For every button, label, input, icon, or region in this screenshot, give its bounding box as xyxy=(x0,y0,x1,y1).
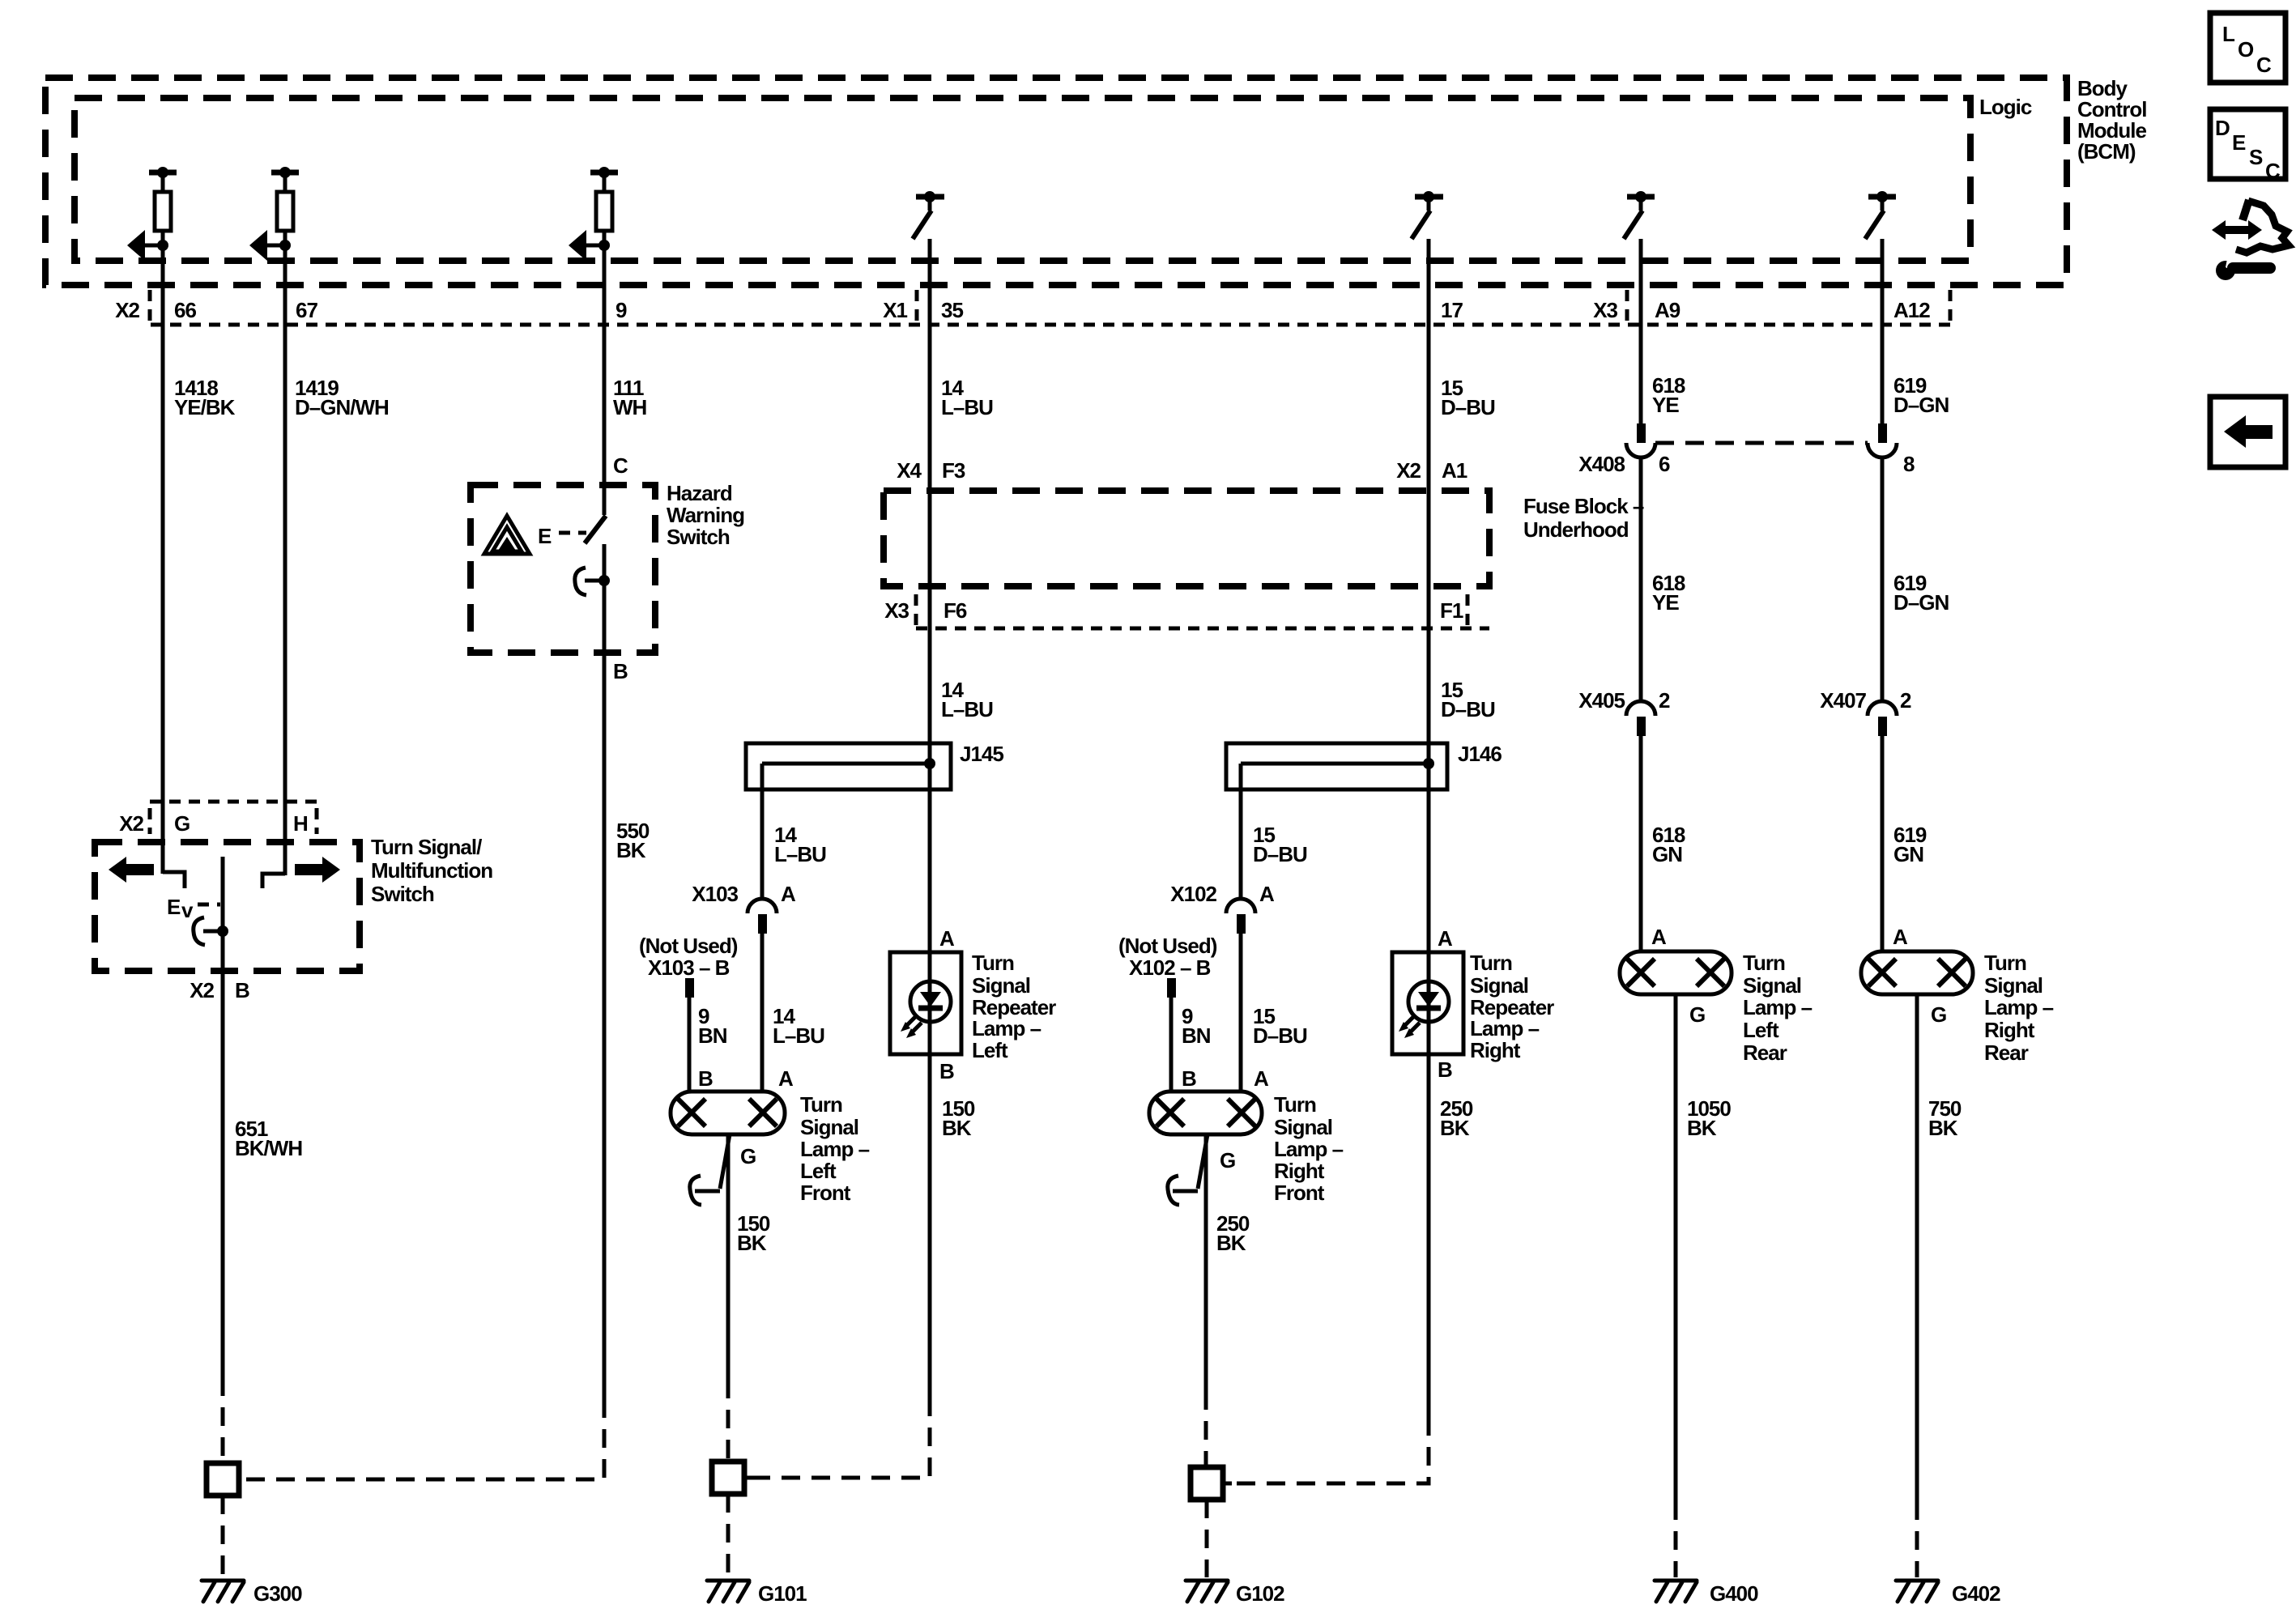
svg-text:E: E xyxy=(538,524,552,548)
svg-text:Right: Right xyxy=(1984,1018,2035,1042)
svg-text:B: B xyxy=(613,659,628,683)
svg-text:D–GN: D–GN xyxy=(1893,393,1949,417)
svg-text:WH: WH xyxy=(613,395,647,419)
wire 619 D-GN upper xyxy=(1881,239,1885,423)
ground G300 xyxy=(202,1581,244,1602)
arrow output 9 xyxy=(586,244,604,248)
svg-text:L–BU: L–BU xyxy=(774,842,826,866)
svg-text:Turn Signal/: Turn Signal/ xyxy=(371,835,482,859)
wire 1050 BK xyxy=(1674,994,1678,1501)
turn signal lamp right rear xyxy=(1861,951,1973,994)
svg-text:X103: X103 xyxy=(692,882,738,906)
node dot J145 xyxy=(924,758,935,769)
wire 1050 dashed to G400 xyxy=(1674,1501,1678,1577)
connector X407 pin 2 stub xyxy=(1878,717,1887,736)
svg-text:G: G xyxy=(740,1144,756,1168)
lamp LF case contact slant xyxy=(720,1134,730,1189)
svg-text:Turn: Turn xyxy=(1274,1092,1316,1117)
resistor BCM pin 67 top bar xyxy=(271,170,299,176)
connector X102 pin B stub xyxy=(1167,978,1176,998)
svg-text:G300: G300 xyxy=(253,1581,302,1606)
svg-text:A: A xyxy=(781,882,796,906)
svg-text:G101: G101 xyxy=(758,1581,807,1606)
svg-text:Right: Right xyxy=(1470,1038,1521,1062)
wire 150 BK ground lead xyxy=(726,1134,731,1380)
ground G101 xyxy=(707,1581,749,1602)
svg-text:BK: BK xyxy=(1216,1231,1246,1255)
svg-text:(Not Used): (Not Used) xyxy=(1118,934,1217,958)
svg-text:A: A xyxy=(1254,1066,1269,1091)
resistor BCM pin 9 top bar xyxy=(590,170,618,176)
svg-text:X405: X405 xyxy=(1578,688,1625,713)
svg-text:L–BU: L–BU xyxy=(941,697,993,721)
svg-text:2: 2 xyxy=(1900,688,1911,713)
ground splice box G300 xyxy=(207,1463,239,1496)
wire 618 YE upper xyxy=(1639,239,1643,423)
connector X103 pin A stub xyxy=(758,914,767,934)
svg-text:Hazard: Hazard xyxy=(667,481,732,505)
separator X3 fuse xyxy=(914,594,918,628)
resistor BCM pin 66 top bar xyxy=(149,170,177,176)
node dot J146 xyxy=(1423,758,1434,769)
svg-text:Lamp –: Lamp – xyxy=(1470,1016,1540,1040)
svg-text:B: B xyxy=(939,1059,954,1083)
legend back arrow box xyxy=(2210,397,2285,467)
svg-text:A: A xyxy=(1259,882,1275,906)
svg-text:Left: Left xyxy=(972,1038,1008,1062)
turn signal / multifunction switch dashed box xyxy=(95,842,360,971)
svg-text:BN: BN xyxy=(1182,1023,1211,1048)
wire 14 L-BU main xyxy=(928,239,932,1398)
Body Control Module (BCM) outer dashed box xyxy=(45,78,2067,285)
svg-text:D–BU: D–BU xyxy=(1441,395,1495,419)
svg-text:Left: Left xyxy=(1743,1018,1779,1042)
svg-text:Rear: Rear xyxy=(1743,1040,1787,1065)
wire ground path to G101 xyxy=(752,1398,930,1478)
svg-text:X3: X3 xyxy=(884,598,909,623)
connector X407 pin 2 arc xyxy=(1868,701,1897,716)
separator left xyxy=(148,808,152,834)
svg-text:Signal: Signal xyxy=(1470,973,1528,998)
node dot switch 35 xyxy=(924,191,935,202)
splice pack J146 box xyxy=(1226,743,1447,789)
wire 619 GN xyxy=(1881,736,1885,951)
wire 14 L-BU to lamp xyxy=(760,934,765,1091)
svg-text:Fuse Block –: Fuse Block – xyxy=(1523,494,1644,518)
svg-text:L–BU: L–BU xyxy=(773,1023,824,1048)
hazard warning switch dashed box xyxy=(471,485,655,653)
svg-text:Signal: Signal xyxy=(1743,973,1801,998)
svg-text:(BCM): (BCM) xyxy=(2077,139,2136,164)
svg-text:D–BU: D–BU xyxy=(1253,842,1307,866)
svg-text:Switch: Switch xyxy=(371,882,434,906)
svg-text:G: G xyxy=(1220,1148,1235,1172)
wire 111 WH xyxy=(603,231,607,515)
hazard switch movable contact hook xyxy=(575,568,586,595)
right turn arrow icon xyxy=(322,857,340,883)
ground splice box G102 xyxy=(1191,1467,1223,1500)
svg-text:D–BU: D–BU xyxy=(1253,1023,1307,1048)
svg-text:A1: A1 xyxy=(1442,458,1467,483)
svg-text:G102: G102 xyxy=(1236,1581,1284,1606)
svg-text:G: G xyxy=(174,811,190,836)
svg-text:Warning: Warning xyxy=(667,503,744,527)
svg-text:Rear: Rear xyxy=(1984,1040,2029,1065)
wire 250 BK ground lead xyxy=(1204,1134,1208,1391)
turn signal repeater lamp right box xyxy=(1392,952,1463,1054)
svg-text:F1: F1 xyxy=(1440,598,1463,623)
resistor BCM pin 67 xyxy=(283,172,288,192)
node dot resistor 67 xyxy=(279,167,291,178)
lamp RF case contact slant xyxy=(1198,1134,1208,1189)
svg-text:Turn: Turn xyxy=(1984,951,2026,975)
svg-text:Signal: Signal xyxy=(800,1115,858,1139)
arrow output 66 xyxy=(145,244,163,248)
node dot contact xyxy=(217,926,228,937)
svg-text:Lamp –: Lamp – xyxy=(1743,995,1813,1019)
svg-text:X2: X2 xyxy=(190,978,214,1002)
switch BCM pin 35 top bar xyxy=(916,194,944,200)
svg-text:9: 9 xyxy=(616,298,627,322)
switch BCM pin 35 blade xyxy=(928,197,932,211)
node dot switch A9 xyxy=(1635,191,1646,202)
wire 1418 YE/BK xyxy=(161,231,165,874)
ground G400 xyxy=(1655,1581,1697,1602)
wire 550 dashed path to G300 splice xyxy=(246,1399,604,1479)
svg-text:Lamp –: Lamp – xyxy=(972,1016,1042,1040)
svg-text:Multifunction: Multifunction xyxy=(371,858,492,883)
svg-text:F6: F6 xyxy=(944,598,967,623)
wire 618 GN xyxy=(1639,736,1643,951)
connector A12 right separator xyxy=(1949,290,1953,325)
wire J146 branch 15 D-BU xyxy=(1239,764,1243,899)
node dot resistor 9 xyxy=(598,167,610,178)
ground splice box G101 xyxy=(712,1462,744,1494)
connector X103 pin A arc xyxy=(748,899,777,913)
svg-text:E: E xyxy=(2232,130,2246,155)
legend DESC box xyxy=(2210,109,2285,179)
wire 1419 D-GN/WH xyxy=(283,231,288,875)
svg-text:Signal: Signal xyxy=(972,973,1030,998)
fuse block underhood dashed box xyxy=(884,491,1489,586)
legend vehicle service icon xyxy=(2212,200,2289,280)
LED symbol repeater left xyxy=(910,981,951,1022)
svg-text:D–GN: D–GN xyxy=(1893,590,1949,615)
svg-text:C: C xyxy=(613,453,628,478)
switch BCM pin 17 top bar xyxy=(1415,194,1443,200)
wire 750 dashed to G402 xyxy=(1915,1501,1919,1577)
wire 15 D-BU to lamp xyxy=(1239,934,1243,1091)
svg-text:F3: F3 xyxy=(942,458,965,483)
svg-text:Turn: Turn xyxy=(1743,951,1785,975)
connector X405 pin 2 stub xyxy=(1637,717,1646,736)
wire 750 BK xyxy=(1915,994,1919,1501)
turn signal repeater lamp left box xyxy=(890,952,961,1054)
svg-text:v: v xyxy=(181,898,194,922)
BCM connector pin row dotted line xyxy=(151,323,1950,327)
wire G102 down xyxy=(1205,1500,1209,1577)
multifunction switch X2 connector dotted line xyxy=(150,800,317,804)
svg-text:G400: G400 xyxy=(1710,1581,1758,1606)
svg-text:X102 – B: X102 – B xyxy=(1129,955,1211,980)
svg-text:BK/WH: BK/WH xyxy=(235,1136,302,1160)
connector X1 separator xyxy=(915,290,919,325)
resistor BCM pin 66 xyxy=(161,172,165,192)
connector X408 pin 8 stub xyxy=(1878,423,1887,443)
J145 bus bar xyxy=(762,762,930,766)
svg-text:GN: GN xyxy=(1652,842,1682,866)
svg-text:X2: X2 xyxy=(119,811,143,836)
svg-text:A: A xyxy=(778,1066,794,1091)
svg-text:X2: X2 xyxy=(115,298,139,322)
svg-text:L–BU: L–BU xyxy=(941,395,993,419)
connector X2 separator xyxy=(148,290,152,325)
svg-text:D–BU: D–BU xyxy=(1441,697,1495,721)
svg-text:B: B xyxy=(1182,1066,1196,1091)
LED symbol repeater right xyxy=(1408,981,1449,1022)
wire 15 D-BU main xyxy=(1427,239,1431,1417)
svg-text:E: E xyxy=(167,895,181,919)
hazard switch blade xyxy=(585,516,606,543)
svg-text:2: 2 xyxy=(1659,688,1670,713)
svg-text:YE: YE xyxy=(1652,393,1679,417)
hazard warning triangle icon xyxy=(484,516,530,554)
svg-text:BK: BK xyxy=(942,1116,972,1140)
connector X102 pin A stub xyxy=(1237,914,1246,934)
wire 9 BN xyxy=(688,998,692,1091)
svg-text:L: L xyxy=(2222,22,2235,46)
svg-text:Lamp –: Lamp – xyxy=(1984,995,2054,1019)
node dot hazard contact xyxy=(598,575,610,586)
wire 250 dashed to G102 splice xyxy=(1204,1391,1208,1467)
fuse block bottom row dotted line xyxy=(916,627,1489,631)
svg-text:G: G xyxy=(1689,1002,1705,1027)
svg-text:X3: X3 xyxy=(1593,298,1617,322)
svg-text:X407: X407 xyxy=(1820,688,1866,713)
svg-text:Signal: Signal xyxy=(1274,1115,1332,1139)
svg-text:BK: BK xyxy=(1440,1116,1470,1140)
svg-text:Turn: Turn xyxy=(1470,951,1512,975)
Logic inner dashed box xyxy=(75,98,1970,261)
node dot 67 xyxy=(279,240,291,251)
svg-text:A12: A12 xyxy=(1893,298,1930,322)
svg-text:X102: X102 xyxy=(1170,882,1216,906)
svg-text:Turn: Turn xyxy=(972,951,1014,975)
svg-text:Front: Front xyxy=(800,1181,851,1205)
switch BCM pin A9 blade xyxy=(1639,197,1643,211)
svg-text:C: C xyxy=(2265,159,2281,183)
lamp RF contact hook xyxy=(1168,1176,1179,1205)
svg-text:A: A xyxy=(1893,925,1908,949)
svg-text:BK: BK xyxy=(737,1231,767,1255)
svg-text:YE/BK: YE/BK xyxy=(174,395,236,419)
svg-text:A: A xyxy=(939,926,955,951)
separator right xyxy=(315,808,319,834)
connector X405 pin 2 arc xyxy=(1626,701,1655,716)
connector X408 pin 8 arc xyxy=(1868,443,1897,457)
svg-text:BK: BK xyxy=(616,838,646,862)
svg-text:J145: J145 xyxy=(960,742,1003,766)
svg-text:8: 8 xyxy=(1903,452,1915,476)
svg-text:66: 66 xyxy=(174,298,196,322)
separator F1 right xyxy=(1466,594,1470,628)
wire 9 BN right xyxy=(1169,998,1174,1091)
svg-text:X103 – B: X103 – B xyxy=(648,955,730,980)
svg-text:X4: X4 xyxy=(897,458,922,483)
lamp LF contact hook xyxy=(690,1176,701,1205)
connector X102 pin A arc xyxy=(1226,899,1255,913)
wire 651 dashed to G300 splice xyxy=(221,1377,225,1462)
svg-text:Switch: Switch xyxy=(667,525,730,549)
svg-text:Underhood: Underhood xyxy=(1523,517,1629,542)
svg-text:Lamp –: Lamp – xyxy=(800,1137,870,1161)
svg-text:A: A xyxy=(1438,926,1453,951)
svg-text:GN: GN xyxy=(1893,842,1923,866)
svg-text:S: S xyxy=(2249,145,2263,169)
svg-text:Left: Left xyxy=(800,1159,837,1183)
connector X3 separator xyxy=(1625,290,1629,325)
svg-text:17: 17 xyxy=(1441,298,1463,322)
hazard E dashed link xyxy=(559,531,586,535)
connector X103 pin B stub xyxy=(685,978,694,998)
G102 splice right stub xyxy=(1223,1482,1232,1486)
svg-text:BK: BK xyxy=(1687,1116,1717,1140)
switch BCM pin 17 blade xyxy=(1427,197,1431,211)
svg-text:Right: Right xyxy=(1274,1159,1325,1183)
resistor BCM pin 9 xyxy=(603,172,607,192)
wire 150 dashed to G101 splice xyxy=(726,1380,731,1462)
connector X408 pin 6 arc xyxy=(1626,443,1655,457)
svg-text:J146: J146 xyxy=(1458,742,1502,766)
svg-text:A9: A9 xyxy=(1655,298,1680,322)
svg-text:6: 6 xyxy=(1659,452,1670,476)
svg-text:Signal: Signal xyxy=(1984,973,2043,998)
left turn arrow icon xyxy=(109,857,126,883)
svg-text:A: A xyxy=(1651,925,1667,949)
wire common pole B xyxy=(221,857,225,1377)
wire J145 branch 14 L-BU xyxy=(760,764,765,899)
wire 619 D-GN mid xyxy=(1881,457,1885,701)
svg-text:C: C xyxy=(2256,53,2272,77)
svg-text:Turn: Turn xyxy=(800,1092,842,1117)
svg-text:YE: YE xyxy=(1652,590,1679,615)
svg-text:67: 67 xyxy=(296,298,317,322)
wire G101 down xyxy=(726,1494,731,1577)
connector X408 pin 6 stub xyxy=(1637,423,1646,443)
wire G300 down xyxy=(221,1496,225,1577)
connector X408 dashed link xyxy=(1655,441,1868,445)
node dot 66 xyxy=(157,240,168,251)
svg-text:35: 35 xyxy=(941,298,963,322)
switch BCM pin A12 top bar xyxy=(1868,194,1896,200)
turn signal lamp right front xyxy=(1149,1091,1262,1134)
wire 618 YE mid xyxy=(1639,457,1643,701)
svg-text:B: B xyxy=(1438,1057,1452,1082)
legend LOC box xyxy=(2210,13,2285,83)
svg-text:BN: BN xyxy=(698,1023,727,1048)
svg-text:O: O xyxy=(2238,37,2254,62)
switch BCM pin A12 blade xyxy=(1881,197,1885,211)
LED light arrows left xyxy=(906,1016,916,1026)
svg-text:B: B xyxy=(235,978,249,1002)
ground G102 xyxy=(1186,1581,1228,1602)
svg-text:G: G xyxy=(1931,1002,1946,1027)
svg-text:Front: Front xyxy=(1274,1181,1325,1205)
G101 splice right stub xyxy=(744,1476,753,1480)
svg-text:Lamp –: Lamp – xyxy=(1274,1137,1344,1161)
arrow output 67 xyxy=(267,244,285,248)
svg-text:(Not Used): (Not Used) xyxy=(639,934,738,958)
turn signal lamp left rear xyxy=(1620,951,1732,994)
splice pack J145 box xyxy=(746,743,951,789)
switch movable contact hook xyxy=(194,917,205,945)
svg-text:X2: X2 xyxy=(1396,458,1421,483)
node dot 9 xyxy=(598,240,610,251)
node dot switch A12 xyxy=(1876,191,1888,202)
wire ground path to G102 xyxy=(1230,1417,1429,1483)
switch E dashed link xyxy=(198,903,220,907)
turn signal lamp left front xyxy=(671,1091,785,1134)
switch BCM pin A9 top bar xyxy=(1627,194,1655,200)
svg-text:X1: X1 xyxy=(883,298,907,322)
LED light arrows right xyxy=(1404,1016,1414,1026)
svg-text:BK: BK xyxy=(1928,1116,1958,1140)
svg-text:D–GN/WH: D–GN/WH xyxy=(295,395,389,419)
node dot resistor 66 xyxy=(157,167,168,178)
ground G402 xyxy=(1896,1581,1938,1602)
node dot switch 17 xyxy=(1423,191,1434,202)
svg-text:Logic: Logic xyxy=(1979,95,2032,119)
svg-text:D: D xyxy=(2215,116,2230,140)
svg-text:B: B xyxy=(698,1066,713,1091)
J146 bus bar xyxy=(1241,762,1429,766)
wire 550 BK upper xyxy=(603,544,607,1399)
svg-text:G402: G402 xyxy=(1952,1581,2000,1606)
svg-text:H: H xyxy=(293,811,308,836)
svg-text:X408: X408 xyxy=(1578,452,1625,476)
